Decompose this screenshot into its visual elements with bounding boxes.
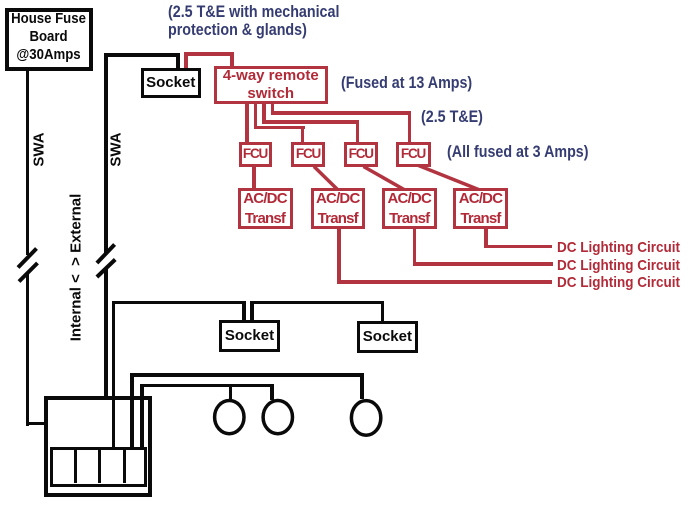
house fuse board [5, 8, 93, 71]
4-way remote switch [214, 66, 328, 105]
wire SWA2 lower vertical into consumer unit [104, 269, 108, 447]
wire FCU1 to transformer T1 [252, 167, 256, 189]
wire DC lighting circuit 1 horizontal [484, 245, 552, 249]
note All fused at 3 Amps [447, 143, 589, 161]
wire DC lighting circuit 3 horizontal [337, 280, 552, 284]
wire DC lighting circuit 2 horizontal [413, 262, 553, 266]
red wire drop to switch top [230, 52, 234, 67]
AC/DC transformer T4 [453, 188, 508, 229]
wire drop to lamp L3 [360, 373, 364, 399]
red wire horizontal [184, 52, 234, 56]
socket S3 (bottom right) [357, 321, 418, 353]
wire lighting circuit B riser [140, 384, 144, 448]
FCU 1 [239, 142, 272, 167]
label SWA (left cable) [31, 122, 48, 178]
consumer unit outer box [44, 396, 152, 497]
note 2.5 T&E [421, 108, 483, 126]
switch feed wire 3 drop to FCU3 [356, 120, 360, 142]
wire socket ring horizontal segment 1 [112, 301, 247, 305]
label DC Lighting Circuit 3 [557, 274, 680, 291]
switch feed wire 2 horizontal [254, 126, 305, 130]
label DC Lighting Circuit 2 [557, 257, 680, 274]
AC/DC transformer T2 [311, 188, 366, 229]
switch feed wire 1 to FCU1 [245, 104, 249, 142]
FCU 3 [344, 142, 378, 167]
switch feed wire 3 horizontal [262, 120, 359, 124]
FCU 4 [396, 142, 431, 167]
FCU 2 [291, 142, 325, 167]
switch feed wire 2 vertical [254, 104, 258, 129]
wire SWA1 lower segment [26, 273, 30, 426]
switch feed wire 4 vertical [271, 104, 275, 115]
wire SWA1 elbow into consumer unit [26, 422, 48, 426]
wire T4 output vertical [484, 229, 488, 248]
note Fused at 13 Amps [341, 74, 472, 92]
wire lighting circuit A horizontal [130, 373, 364, 377]
wire SWA1 upper segment [26, 70, 30, 255]
wire T3 output vertical [413, 229, 417, 266]
label Internal <-> External [68, 188, 85, 346]
switch feed wire 4 horizontal [271, 111, 412, 115]
wire T2 output vertical [337, 229, 341, 284]
wire lighting circuit B horizontal [140, 384, 274, 388]
label DC Lighting Circuit 1 [557, 239, 680, 256]
wire socket ring circuit riser [112, 301, 116, 448]
note 2.5 T&E with mechanical protection & glands [168, 3, 339, 39]
wire rise out of socket S2 [250, 301, 254, 321]
switch feed wire 2 drop to FCU2 [301, 126, 305, 143]
wire SWA2 top horizontal to socket [104, 53, 180, 57]
wire dip into socket S2 [242, 301, 246, 321]
wire drop into socket S1 top [176, 53, 180, 68]
breaker divider 1 [74, 450, 78, 483]
socket S2 (bottom left) [219, 320, 280, 352]
consumer unit breaker row box [50, 447, 148, 487]
label SWA (right cable) [108, 122, 125, 178]
red wire socket S1 to remote switch: riser [184, 52, 188, 68]
breaker divider 3 [123, 450, 127, 483]
socket S1 (top) [141, 68, 201, 98]
wire drop to lamp L1 [229, 384, 233, 400]
wire drop to lamp L2 [270, 384, 274, 400]
AC/DC transformer T3 [382, 188, 437, 229]
wire drop into socket S3 [381, 301, 385, 322]
wire SWA2 upper vertical [104, 53, 108, 253]
wire socket ring horizontal segment 2 [250, 301, 384, 305]
wire lighting circuit A riser [130, 373, 134, 447]
AC/DC transformer T1 [238, 188, 293, 229]
breaker divider 2 [98, 450, 102, 483]
switch feed wire 3 vertical [262, 104, 266, 124]
switch feed wire 4 drop to FCU4 [408, 111, 412, 142]
